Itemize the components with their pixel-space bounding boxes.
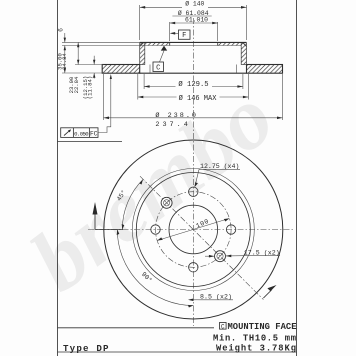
- dim (12.15)/(11.84): [93, 56, 95, 65]
- section arrow bottom right: [263, 290, 271, 298]
- hat top plate right (hatched): [218, 43, 242, 46]
- centerline vertical axis: [192, 18, 194, 326]
- svg-text:Type DP: Type DP: [63, 343, 109, 354]
- svg-text:C: C: [221, 323, 225, 330]
- bottom line: [58, 351, 297, 353]
- section arrow left: [95, 214, 123, 230]
- diagonal centerline 135-315: [140, 176, 263, 299]
- hat circle: [136, 173, 250, 287]
- threaded hole SE: [215, 251, 226, 262]
- hat inner surface line: [145, 45, 241, 47]
- center bore: [169, 205, 218, 254]
- datum F box: [179, 30, 191, 39]
- svg-text:(11.84): (11.84): [86, 76, 93, 100]
- hat wall left (hatched): [140, 43, 145, 65]
- datum F leader: [171, 32, 179, 34]
- bolt hole top: [189, 187, 198, 196]
- svg-text:FC: FC: [90, 130, 98, 137]
- svg-text:17.5 (x2): 17.5 (x2): [244, 249, 280, 256]
- svg-text:F: F: [182, 32, 186, 40]
- hat top plate left (hatched): [145, 43, 170, 46]
- svg-text:MOUNTING FACE: MOUNTING FACE: [228, 322, 297, 332]
- svg-text:Ø 146 MAX: Ø 146 MAX: [179, 94, 218, 103]
- disc friction band left (hatched): [102, 65, 140, 74]
- outer circle: [104, 140, 283, 319]
- dim Ø146 MAX: [137, 74, 139, 100]
- hat top outer surface: [140, 41, 247, 43]
- svg-text:Weight 3.78Kg: Weight 3.78Kg: [216, 344, 296, 354]
- dim 6 (hat plate): [64, 33, 66, 42]
- step line left: [149, 65, 151, 74]
- 90 degree dim arc: [117, 230, 193, 306]
- hat top corner chamfer right: [243, 42, 247, 46]
- runout feature control frame: [61, 128, 98, 138]
- bore edge left: [169, 42, 171, 45]
- hat wall right (hatched): [241, 43, 246, 65]
- svg-text:Ø 129.5: Ø 129.5: [178, 80, 208, 89]
- dim Ø140: [139, 5, 141, 40]
- frame right border: [296, 0, 298, 356]
- svg-text:0.050: 0.050: [74, 130, 89, 137]
- title divider line: [58, 327, 215, 329]
- svg-text:Ø 238.0: Ø 238.0: [155, 111, 196, 120]
- dim 35.00/34.84: [64, 46, 66, 74]
- svg-text:6: 6: [57, 28, 64, 32]
- bolt hole left: [151, 225, 160, 234]
- svg-text:22.84: 22.84: [73, 76, 80, 93]
- inner bottom face line: [140, 72, 247, 74]
- svg-text:12.75 (x4): 12.75 (x4): [200, 163, 239, 170]
- step line right: [236, 65, 238, 74]
- dim Ø61.084/61.010: [169, 22, 171, 41]
- svg-text:Min. TH10.5 mm: Min. TH10.5 mm: [213, 333, 296, 343]
- left dims extension lines: [62, 41, 140, 43]
- bolt circle (dash-dot): [156, 192, 232, 268]
- dim 23.00/22.84: [77, 42, 79, 64]
- svg-text:100: 100: [195, 218, 210, 230]
- datum C box: [153, 62, 164, 72]
- bolt hole bottom: [189, 263, 198, 272]
- mounting face C box: [220, 323, 227, 330]
- bore edge right: [217, 42, 219, 45]
- svg-text:61.010: 61.010: [185, 16, 208, 23]
- dim Ø238.0/237.4: [103, 74, 105, 120]
- disc friction band right (hatched): [247, 65, 283, 74]
- svg-text:C: C: [156, 64, 160, 72]
- watermark brembo script: [14, 68, 291, 310]
- frame stub line left: [58, 141, 123, 143]
- dim 100 bolt circle: [157, 218, 229, 240]
- hat top corner chamfer left: [140, 42, 144, 46]
- horizontal centerline: [88, 229, 294, 231]
- friction inner circle: [132, 169, 254, 291]
- threaded hole NW: [161, 197, 172, 208]
- frame left border: [57, 0, 59, 356]
- datum C triangle: [161, 46, 167, 51]
- 45 degree dim arc: [122, 179, 143, 229]
- svg-text:34.84: 34.84: [61, 52, 68, 69]
- svg-text:8.5 (x2): 8.5 (x2): [200, 293, 232, 300]
- svg-text:Ø 140: Ø 140: [185, 0, 204, 7]
- dim Ø129.5: [143, 74, 145, 89]
- runout leader: [98, 76, 111, 133]
- bolt hole right: [226, 225, 235, 234]
- svg-text:90°: 90°: [140, 270, 154, 284]
